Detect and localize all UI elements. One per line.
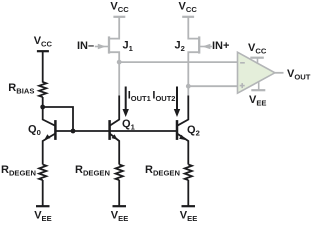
power VCC (above J2) (179, 1, 198, 17)
resistor RDEGEN (right) (185, 165, 192, 181)
wire VCC bar to RBIAS (42, 51, 44, 82)
power VEE (left) (34, 206, 51, 223)
current arrow IOUT2 (174, 87, 180, 118)
node A junction (RBIAS / Q0 collector / diode connection) (40, 105, 45, 110)
wire J1 source down (gray) (118, 62, 120, 95)
wire RBIAS to node A (42, 97, 44, 107)
transistor Q2 (177, 96, 188, 165)
wire RDEGEN to VEE (left) (42, 180, 44, 206)
op-amp U1 (238, 52, 275, 93)
transistor Q1 (110, 96, 120, 165)
power VCC (op-amp) (248, 42, 267, 64)
wire op-amp output (275, 72, 284, 74)
node B junction on base rail (71, 129, 76, 134)
power VEE (middle) (111, 206, 128, 223)
wire base rail Q0-Q1-Q2 (55, 130, 177, 132)
svg-text:IN–: IN– (77, 40, 94, 52)
resistor RDEGEN (middle) (116, 165, 123, 181)
power VCC (left, above RBIAS) (34, 35, 53, 51)
JFET J2 (188, 17, 212, 86)
node J2 source junction (186, 84, 191, 89)
JFET J1 (95, 17, 119, 62)
power VEE (right) (180, 206, 197, 223)
wire J2 source down (gray) (187, 86, 189, 95)
wire RDEGEN to VEE (right) (187, 180, 189, 206)
current arrow IOUT1 (123, 87, 129, 118)
power VEE (op-amp) (249, 81, 266, 107)
transistor Q0 (43, 107, 56, 165)
resistor RDEGEN (left) (39, 165, 46, 181)
svg-text:IN+: IN+ (212, 40, 229, 52)
power VCC (above J1) (110, 1, 129, 17)
resistor RBIAS (39, 82, 46, 97)
wire J1 source to op-amp inverting input (119, 61, 237, 63)
wire RDEGEN to VEE (middle) (118, 180, 120, 206)
node J1 source junction (117, 60, 122, 65)
wire diode connection node A to base rail (43, 107, 73, 131)
wire J2 source to op-amp non-inverting input (188, 85, 237, 87)
